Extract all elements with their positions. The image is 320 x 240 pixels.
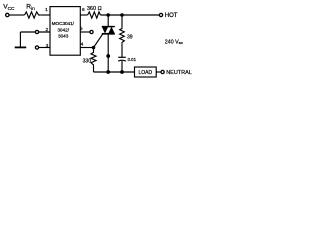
svg-text:3042/: 3042/ [57, 27, 69, 32]
svg-text:3043: 3043 [58, 34, 69, 39]
svg-text:NEUTRAL: NEUTRAL [166, 70, 192, 76]
LOAD box [135, 67, 157, 77]
wire pin5 stub [80, 31, 90, 33]
wire 39 to cap [121, 44, 123, 57]
node junction pin4/gate [92, 46, 96, 50]
node junction bottom rail at snubber [120, 70, 124, 74]
svg-text:330: 330 [83, 58, 92, 64]
svg-text:MOC3041/: MOC3041/ [52, 21, 75, 26]
wire to ground [19, 32, 21, 47]
terminal HOT [159, 13, 162, 16]
svg-text:39: 39 [127, 34, 133, 40]
svg-text:1: 1 [45, 7, 48, 13]
transistor Q1 triac MT1 lead [107, 34, 109, 72]
svg-text:5: 5 [80, 26, 83, 32]
node junction on MT1 [106, 54, 110, 58]
wire snubber top [121, 15, 123, 28]
node pin3 open circle [35, 46, 38, 49]
node pin5 open circle [90, 30, 93, 33]
wire bottom rail [94, 71, 135, 73]
svg-text:HOT: HOT [165, 13, 178, 19]
wire pin4 [80, 47, 93, 49]
wire pin2 [20, 31, 50, 33]
resistor 39 [120, 28, 125, 44]
wire [9, 14, 24, 16]
op-amp U1 MOC3041 box [50, 7, 80, 56]
transistor Q1 triac body [102, 27, 115, 34]
wire to NEUTRAL [156, 71, 161, 73]
node junction top rail at triac [106, 13, 110, 17]
ground [15, 46, 27, 48]
transistor Q1 triac MT2 lead [107, 15, 109, 27]
svg-text:4: 4 [81, 42, 84, 48]
wire cap to rail [121, 61, 123, 72]
node junction top rail at snubber [120, 13, 124, 17]
wire top rail to HOT [100, 14, 159, 16]
resistor R_in [25, 12, 41, 18]
svg-text:240 Vac: 240 Vac [165, 39, 183, 45]
wire pin6 [80, 14, 87, 16]
wire pin3 stub [39, 47, 50, 49]
svg-text:360 Ω: 360 Ω [87, 6, 102, 12]
node junction bottom rail at triac [106, 70, 110, 74]
svg-text:0.01: 0.01 [128, 57, 137, 62]
wire [40, 14, 50, 16]
terminal VCC [6, 13, 9, 16]
terminal NEUTRAL [161, 70, 164, 73]
resistor 330 [91, 48, 96, 73]
resistor 360 ohm [88, 12, 101, 18]
node pin2 open circle [35, 30, 38, 33]
capacitor 0.01 [118, 56, 126, 58]
svg-text:LOAD: LOAD [138, 70, 152, 76]
svg-text:6: 6 [82, 7, 85, 13]
svg-text:3: 3 [46, 43, 49, 49]
svg-text:2: 2 [45, 27, 48, 33]
transistor Q1 triac gate [94, 34, 103, 47]
